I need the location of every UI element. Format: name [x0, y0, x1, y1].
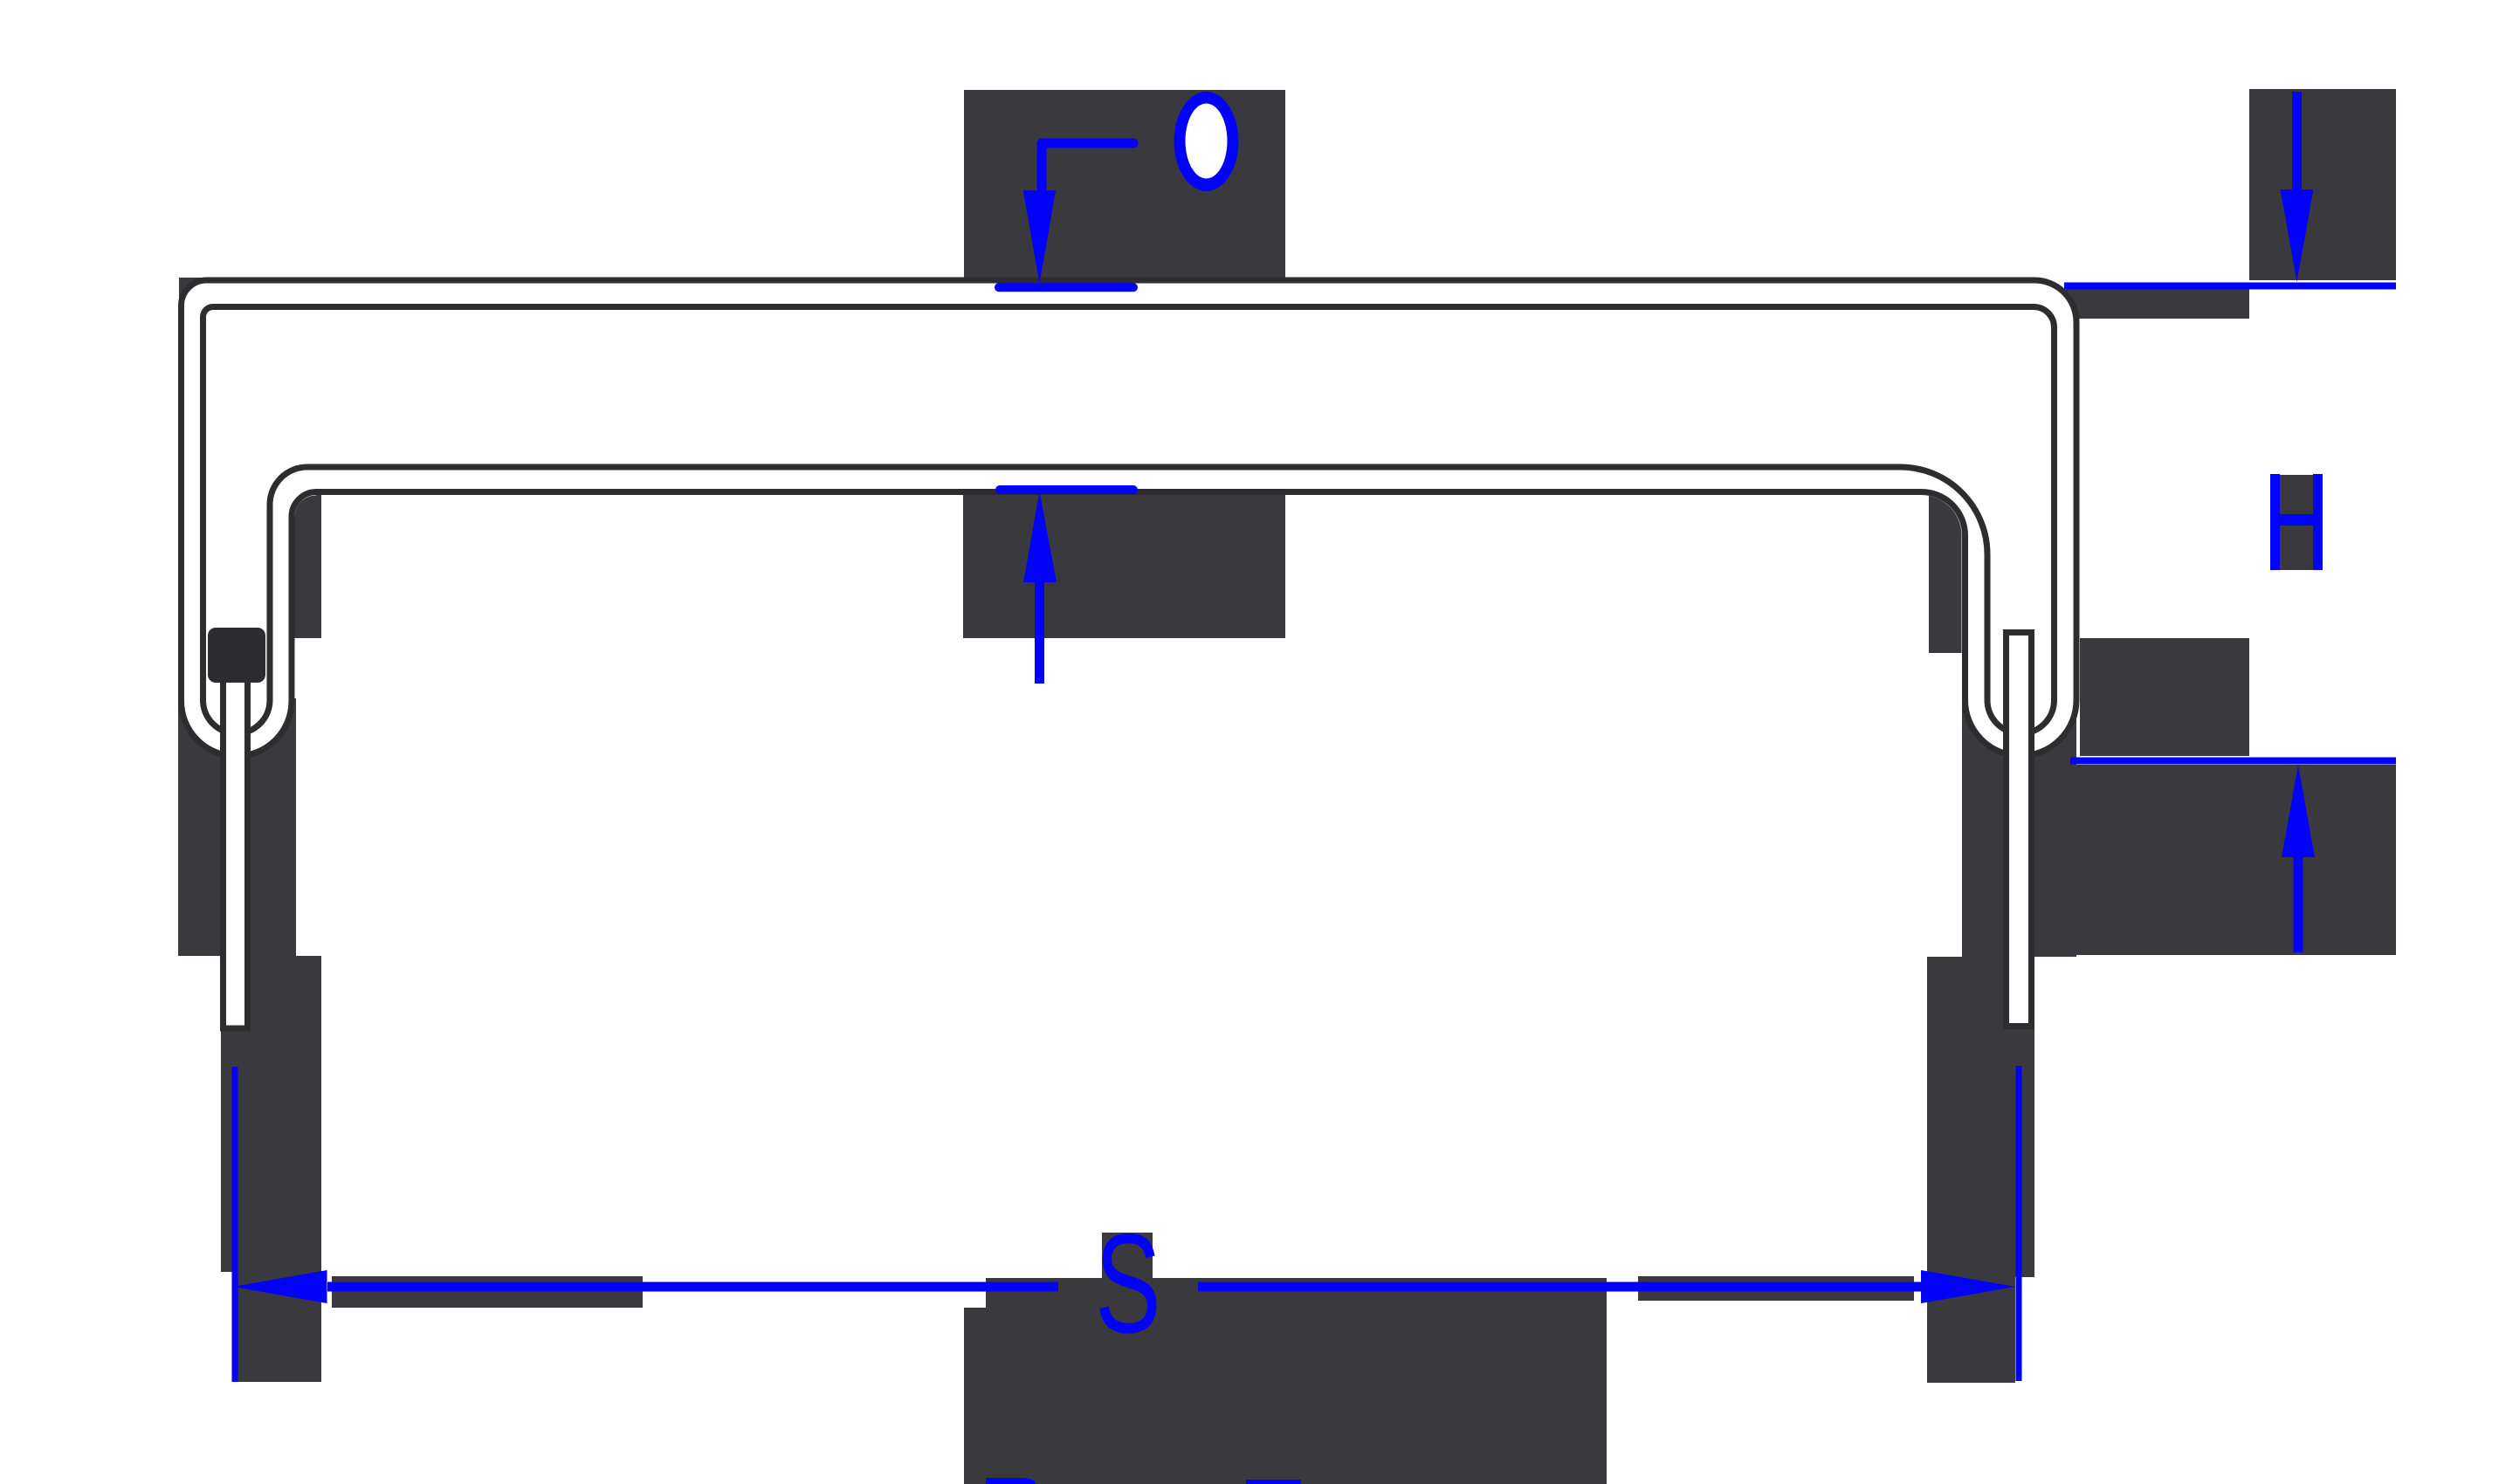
tube outer silhouette — [182, 280, 2077, 756]
redaction block below lower tube center — [963, 494, 1285, 638]
redaction strip right of top-right corner — [2066, 287, 2249, 319]
dim H: top reference line — [2064, 283, 2396, 290]
dim H: bottom reference line — [2070, 758, 2396, 765]
letter R fragment bottom — [986, 1478, 1036, 1484]
redaction block right-bottom of right leg — [2028, 765, 2396, 955]
dim S: left arrowhead — [233, 1270, 327, 1303]
redaction notch behind S letter — [1102, 1233, 1153, 1278]
redaction fill under left leg cap — [178, 698, 296, 956]
dim O: leader line — [1042, 143, 1133, 189]
svg-text:S: S — [1095, 1204, 1161, 1363]
redaction block bottom-center — [964, 1278, 1607, 1484]
redaction column below right leg — [1927, 957, 2034, 1277]
terminal pin right — [2007, 633, 2032, 1027]
dim O: lower shaft — [1035, 582, 1044, 684]
dim O: bar on tube top edge — [999, 283, 1133, 292]
redaction notch inside lower-left bend — [295, 490, 322, 638]
redaction column below left leg — [221, 956, 321, 1272]
redaction strip on S line left — [332, 1276, 643, 1308]
letter H — [2270, 474, 2280, 570]
redaction strip on S line right — [1638, 1276, 1914, 1301]
dim S: line left segment — [327, 1282, 1058, 1292]
redaction fill under right leg cap — [1962, 698, 2076, 957]
dim S: left extension line — [232, 1067, 238, 1382]
tube inner wall loop — [203, 307, 2055, 734]
redaction counters of H letter — [2278, 475, 2315, 570]
redaction block right of right leg — [2080, 638, 2249, 756]
dim O: up arrowhead — [1023, 491, 1057, 582]
seal bead left — [208, 628, 265, 683]
dim S: right extension line — [2016, 1066, 2022, 1381]
letter T fragment bottom — [1246, 1480, 1301, 1484]
terminal pin left — [224, 672, 248, 1028]
redaction block top-center — [964, 90, 1285, 281]
dim O: bar on lower tube bottom edge — [1000, 485, 1133, 494]
dim S: right arrowhead — [1921, 1270, 2015, 1303]
redaction notch inside lower-right bend — [1929, 489, 1962, 653]
redaction block top-right — [2249, 89, 2396, 280]
dim H: bottom up arrowhead — [2282, 765, 2315, 857]
dim H: top down arrowhead — [2281, 189, 2314, 282]
dim S: line right segment — [1198, 1282, 1927, 1292]
dim O: down arrowhead — [1023, 190, 1056, 284]
dim H: bottom up shaft — [2294, 857, 2303, 952]
letter O — [1174, 92, 1239, 191]
dim H: top down arrow shaft — [2292, 92, 2302, 189]
redaction notch at top-left corner — [179, 278, 217, 311]
